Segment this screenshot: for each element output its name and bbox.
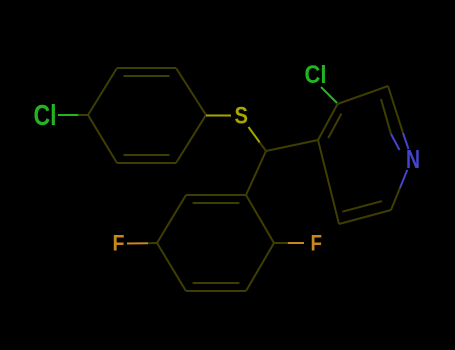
svg-text:F: F — [113, 231, 125, 256]
inner line C2=N — [381, 99, 391, 134]
wire ring1 L-TL — [88, 68, 117, 115]
wire ring1 R-BR — [176, 115, 206, 163]
bond S-CH — [249, 127, 260, 142]
bond Cl-pyridine C3 — [321, 87, 337, 103]
wire ring2 top edge — [186, 194, 246, 196]
wire ring2 TR-R — [246, 195, 274, 243]
wire ring1 bottom edge — [117, 162, 176, 164]
bond CH-pyridine C4 — [266, 140, 318, 151]
svg-text:Cl: Cl — [305, 61, 327, 89]
wire ring2 R-BR — [246, 243, 274, 291]
bond ring1-S — [206, 115, 231, 117]
bond Cl-ring1 — [58, 114, 78, 116]
wire pyridine C5-C4 — [318, 140, 339, 224]
bond F-ring2 left — [127, 242, 148, 244]
svg-text:F: F — [311, 231, 323, 256]
wire ring2 BL-L — [157, 243, 186, 291]
wire ring1 TR-R — [176, 68, 206, 115]
wire pyridine N-C6 — [400, 170, 407, 188]
wire pyridine C3-C2 — [338, 86, 389, 104]
wire ring2 L-TL — [157, 195, 186, 243]
wire pyridine C6=C5 — [339, 210, 391, 224]
wire pyridine C4=C3 — [318, 104, 338, 140]
wire pyridine C2=N — [388, 86, 403, 133]
bond CH-ring2 C1 — [246, 151, 266, 195]
wire ring1 top edge — [117, 67, 176, 69]
wire ring1 BL-L — [88, 115, 117, 163]
bond F-ring2 right — [274, 242, 288, 244]
svg-text:S: S — [235, 103, 249, 130]
svg-text:N: N — [406, 144, 420, 174]
wire ring2 bottom edge — [186, 290, 246, 292]
svg-text:Cl: Cl — [34, 100, 57, 132]
